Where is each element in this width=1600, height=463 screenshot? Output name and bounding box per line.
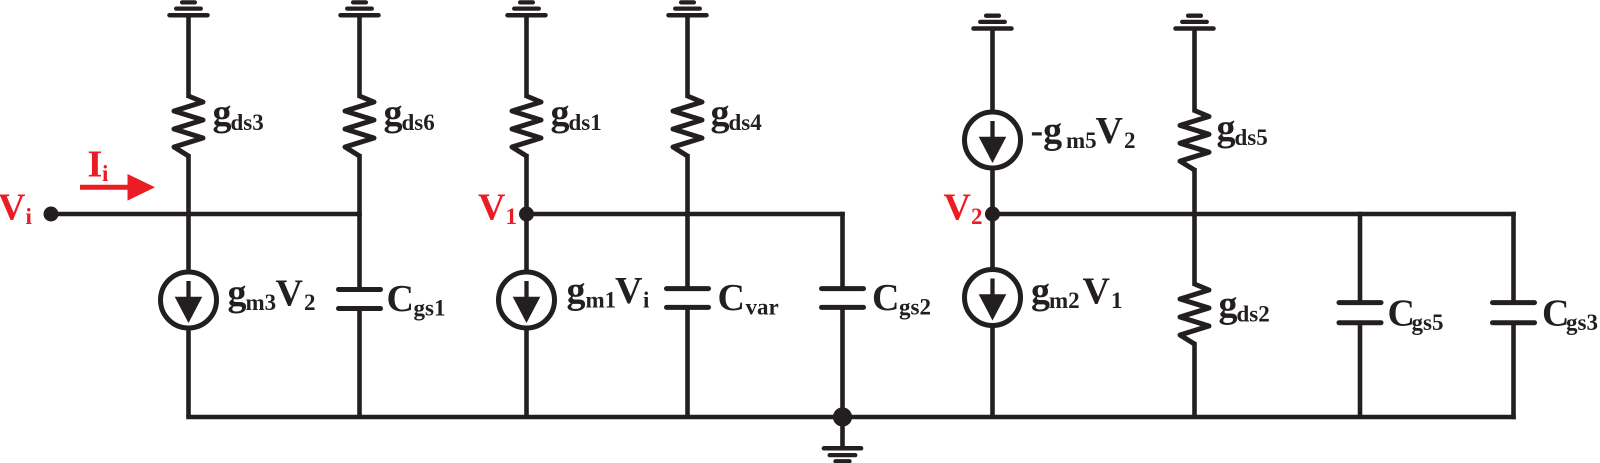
wire gm1Vi to rail	[524, 326, 529, 417]
svg-text:gs3: gs3	[1566, 310, 1598, 335]
ground (top of gds5 branch)	[1176, 16, 1214, 113]
wire V2 node	[993, 212, 1516, 217]
resistor gds6	[345, 96, 374, 156]
svg-text:2: 2	[971, 204, 983, 229]
ground (top of gds3 branch)	[170, 2, 208, 98]
ground (top of gds6 branch)	[341, 2, 379, 98]
resistor gds5	[1180, 111, 1209, 171]
wire V1 to gm1Vi	[524, 214, 529, 274]
svg-text:var: var	[746, 295, 779, 320]
svg-text:ds5: ds5	[1235, 125, 1268, 150]
label gm3V2	[228, 272, 316, 315]
label gds5	[1217, 107, 1268, 150]
capacitor Cgs5	[1339, 303, 1381, 323]
node V2 junction	[985, 207, 1000, 222]
wire V1 node	[527, 212, 845, 217]
svg-text:V: V	[944, 187, 972, 229]
wire gds1 to V1	[524, 154, 529, 214]
svg-text:ds3: ds3	[231, 110, 264, 135]
junction dot on rail	[833, 407, 852, 426]
svg-text:-g: -g	[1031, 110, 1063, 152]
label Cgs5	[1388, 292, 1444, 335]
ground (top of gds1 branch)	[508, 2, 546, 98]
wire gm2V1 to rail	[990, 324, 995, 418]
resistor gds1	[512, 96, 541, 156]
wire -gm5V2 to V2	[990, 166, 995, 214]
svg-text:V: V	[615, 270, 643, 312]
svg-text:g: g	[567, 270, 586, 312]
svg-text:gs1: gs1	[414, 296, 446, 321]
svg-text:m2: m2	[1049, 288, 1080, 313]
svg-text:1: 1	[1111, 288, 1123, 313]
label Vi	[0, 187, 33, 230]
wire Cgs3 to rail	[1511, 323, 1516, 420]
ground (bottom rail)	[824, 417, 861, 461]
svg-text:m5: m5	[1066, 128, 1097, 153]
svg-text:C: C	[872, 277, 899, 319]
label gds3	[213, 92, 264, 135]
label V2	[944, 187, 983, 230]
wire Cgs5 to rail	[1358, 323, 1363, 417]
svg-text:2: 2	[304, 290, 316, 315]
svg-text:g: g	[1031, 270, 1050, 312]
svg-text:i: i	[26, 204, 33, 229]
svg-text:ds2: ds2	[1237, 302, 1270, 327]
current source -gm5V2	[965, 112, 1021, 168]
svg-text:g: g	[711, 92, 730, 134]
resistor gds3	[174, 96, 203, 156]
svg-text:m1: m1	[586, 288, 617, 313]
current source gm2V1	[965, 270, 1021, 326]
label -gm5V2	[1031, 110, 1136, 153]
wire Cgs2 to rail	[840, 307, 845, 417]
svg-text:C: C	[718, 277, 745, 319]
svg-text:ds4: ds4	[729, 110, 763, 135]
wire V1 to Cgs2	[840, 212, 845, 289]
svg-text:gs2: gs2	[899, 295, 931, 320]
ground (top of -gm5V2 branch)	[974, 16, 1012, 114]
svg-text:i: i	[102, 161, 109, 186]
label gds2	[1219, 284, 1270, 327]
svg-text:V: V	[0, 187, 26, 229]
current source gm1Vi	[499, 272, 555, 328]
label gds6	[384, 92, 435, 135]
wire Cgs1 to rail	[357, 309, 362, 418]
svg-text:m3: m3	[246, 290, 277, 315]
svg-text:ds1: ds1	[569, 110, 602, 135]
svg-text:C: C	[387, 278, 414, 320]
svg-text:V: V	[478, 186, 506, 228]
svg-text:g: g	[1219, 284, 1238, 326]
wire Vi node	[51, 212, 362, 217]
label V1	[478, 186, 517, 229]
label gm2V1	[1031, 270, 1123, 313]
label Cgs3	[1542, 292, 1598, 335]
capacitor Cvar	[667, 289, 709, 308]
wire gds2 to rail	[1192, 342, 1197, 417]
svg-text:g: g	[213, 92, 232, 134]
svg-text:ds6: ds6	[402, 110, 435, 135]
svg-text:g: g	[228, 272, 247, 314]
label Cgs2	[872, 277, 931, 320]
label gds1	[551, 92, 602, 135]
capacitor Cgs2	[822, 289, 864, 308]
svg-text:V: V	[1083, 270, 1111, 312]
label gds4	[711, 92, 763, 135]
svg-text:i: i	[643, 288, 650, 313]
svg-text:g: g	[1217, 107, 1236, 149]
wire Cvar to rail	[685, 307, 690, 417]
resistor gds4	[673, 96, 702, 156]
current source gm3V2	[161, 272, 217, 328]
wire gds3 to gm3V2	[186, 154, 191, 274]
svg-text:V: V	[1096, 110, 1124, 152]
wire V2 to gm2V1	[990, 214, 995, 272]
capacitor Cgs3	[1493, 303, 1535, 323]
wire gds5 to gds2	[1192, 168, 1197, 286]
label Cgs1	[387, 278, 446, 321]
label Ii current	[88, 143, 110, 186]
label gm1Vi	[567, 270, 651, 313]
svg-text:gs5: gs5	[1412, 310, 1444, 335]
svg-text:g: g	[384, 92, 403, 134]
resistor gds2	[1180, 284, 1209, 344]
wire gds4 to Cvar	[685, 154, 690, 289]
wire gm3V2 to rail	[186, 326, 191, 417]
node V1 junction	[519, 207, 534, 222]
ground (top of gds4 branch)	[669, 2, 707, 98]
svg-text:1: 1	[506, 204, 518, 229]
wire V2 to Cgs5	[1358, 212, 1363, 303]
svg-text:g: g	[551, 92, 570, 134]
wire gds6 to Cgs1	[357, 154, 362, 290]
svg-text:2: 2	[1124, 128, 1136, 153]
wire V2 corner to Cgs3	[1511, 212, 1516, 303]
svg-text:V: V	[276, 272, 304, 314]
svg-text:I: I	[88, 143, 103, 185]
capacitor Cgs1	[339, 290, 381, 309]
node Vi terminal	[44, 207, 59, 222]
label Cvar	[718, 277, 779, 320]
arrow Ii current direction	[80, 174, 155, 201]
wire ground rail	[186, 415, 1516, 420]
